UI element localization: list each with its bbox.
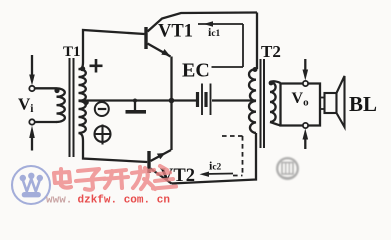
svg-text:Vi: Vi xyxy=(18,95,34,116)
svg-text:ic2: ic2 xyxy=(209,159,222,173)
svg-text:VT1: VT1 xyxy=(158,22,193,42)
svg-text:dzkfw. com. cn: dzkfw. com. cn xyxy=(78,195,170,207)
svg-text:T1: T1 xyxy=(63,44,81,60)
svg-text:www.: www. xyxy=(46,195,72,207)
svg-text:Vo: Vo xyxy=(292,90,310,109)
svg-text:ic1: ic1 xyxy=(208,25,221,39)
svg-text:EC: EC xyxy=(182,60,210,82)
svg-text:T2: T2 xyxy=(261,42,281,61)
svg-text:BL: BL xyxy=(349,92,377,116)
